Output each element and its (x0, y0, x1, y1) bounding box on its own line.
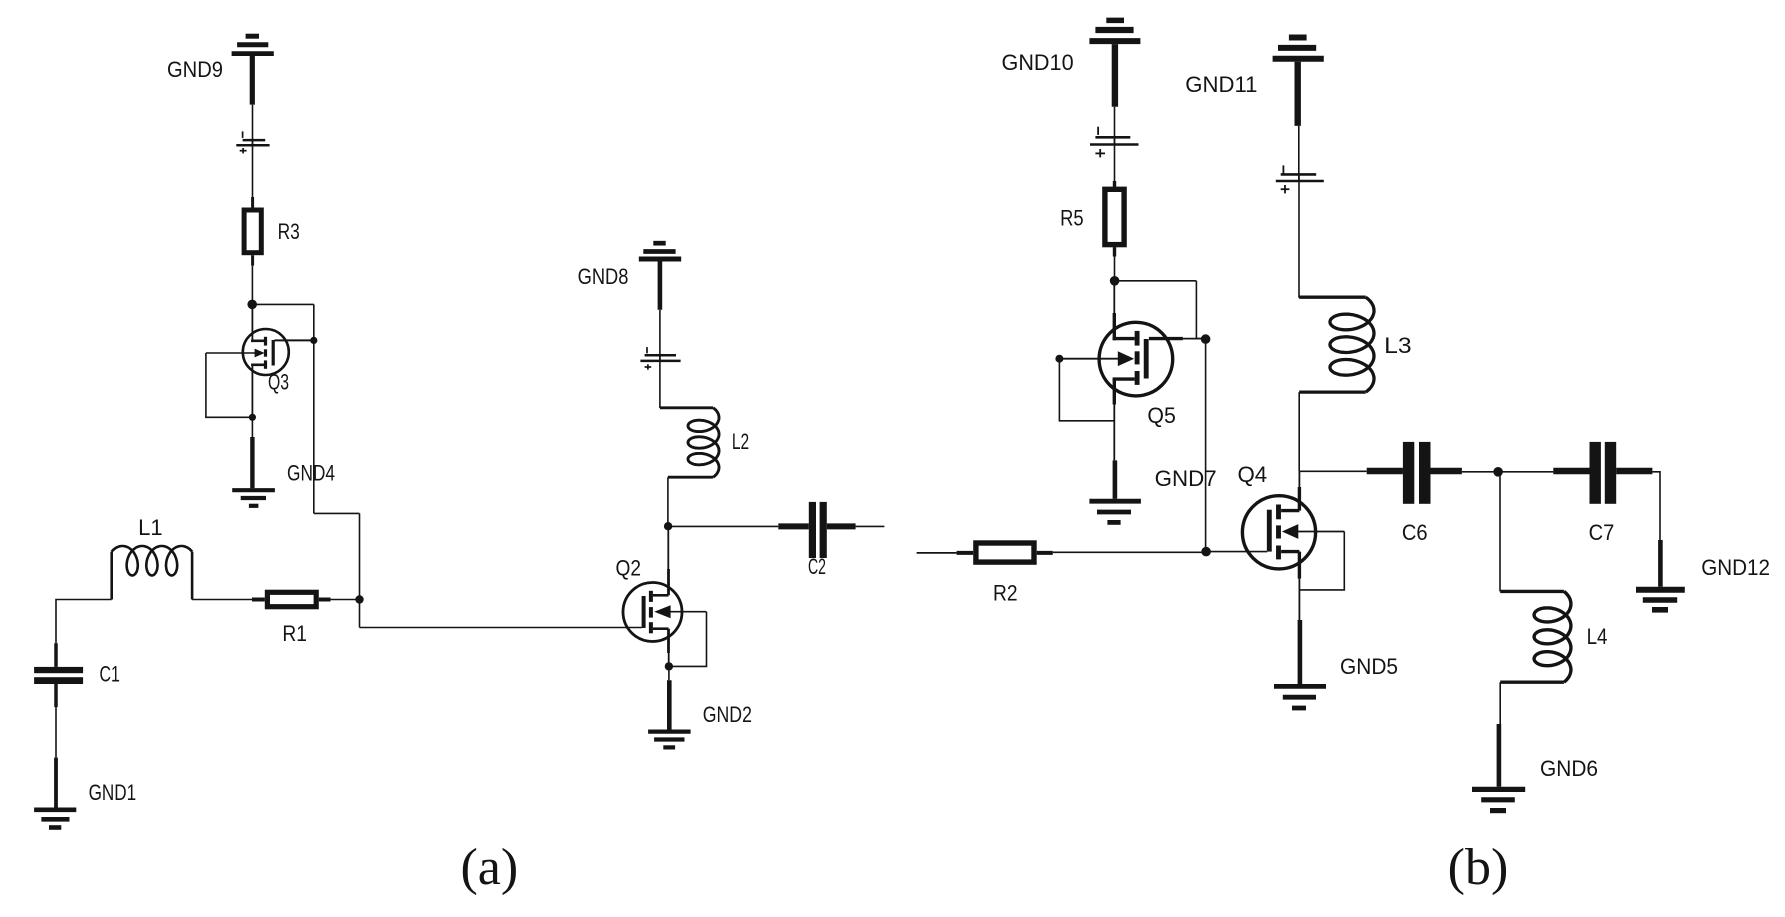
ground GND9 (inverted) (167, 36, 274, 104)
wire Q4 source lead (1298, 552, 1302, 684)
ground GND5 (1274, 654, 1398, 708)
node (R1 right / bias line) (355, 595, 363, 603)
svg-text:R5: R5 (1060, 205, 1084, 230)
node (R5 / Q5 drain / gate tie) (1110, 276, 1120, 286)
wire GND9 to battery V3 (252, 105, 254, 146)
wire C7 to GND12 corner (1652, 472, 1660, 540)
wire jog at y=513 (314, 512, 360, 514)
node (Q2 source / bulk) (665, 662, 673, 670)
wire node to Q4 gate (1206, 551, 1267, 553)
resistor R1 (252, 592, 331, 646)
svg-text:GND2: GND2 (703, 702, 752, 727)
node (Q5 gate tie) (1201, 334, 1211, 344)
svg-text:GND4: GND4 (287, 461, 335, 486)
svg-text:L1: L1 (138, 515, 163, 540)
resistor R3 (244, 197, 300, 266)
inductor L3 (1299, 297, 1412, 392)
battery V2 (640, 347, 680, 370)
capacitor C7 (1553, 442, 1652, 545)
wire corner down (1195, 281, 1197, 339)
wire battery V5 to L3 (1298, 174, 1300, 297)
svg-text:GND8: GND8 (578, 264, 629, 289)
svg-text:GND11: GND11 (1185, 72, 1257, 97)
node (C6 / C7 / L4) (1493, 467, 1503, 477)
svg-text:GND10: GND10 (1002, 50, 1074, 75)
wire vertical x=359.5 through R1 node (359, 513, 361, 627)
svg-text:Q3: Q3 (268, 370, 289, 395)
wire L4 to GND6 (1499, 682, 1500, 787)
wire junction down to Q4 gate node (1205, 339, 1207, 551)
svg-text:C1: C1 (100, 662, 120, 687)
node (Q3 gate tie on vertical wire) (310, 337, 317, 344)
wire node to C7 (1498, 471, 1553, 473)
capacitor C1 (34, 643, 120, 707)
wire battery V3 to R3 (252, 140, 254, 197)
node (Q5 bulk corner) (1055, 355, 1063, 363)
svg-text:Q5: Q5 (1147, 403, 1175, 428)
ground GND1 (34, 780, 136, 828)
wire drain node to C6 (1299, 470, 1367, 472)
svg-text:R3: R3 (278, 219, 300, 244)
svg-text:GND7: GND7 (1155, 466, 1217, 491)
inductor L2 (660, 408, 749, 477)
battery V5 (1276, 165, 1324, 193)
ground GND8 (inverted) (578, 243, 682, 310)
ground GND10 (inverted) (1002, 20, 1141, 106)
ground GND6 (1472, 756, 1598, 811)
transistor Q4 (1238, 462, 1345, 569)
wire GND8 to battery V2 (659, 310, 661, 361)
transistor Q3 (diode-connected) (206, 304, 314, 417)
svg-text:L3: L3 (1384, 333, 1412, 358)
wire battery V4 to R5 (1114, 137, 1116, 181)
svg-text:L2: L2 (732, 429, 749, 454)
wire corner to junction (1196, 338, 1205, 340)
svg-text:R1: R1 (282, 621, 307, 646)
svg-text:GND6: GND6 (1540, 756, 1598, 781)
wire battery V2 to L2 (659, 355, 661, 408)
node (R2 / Q5 tie / Q4 gate) (1201, 547, 1211, 557)
wire GND10 to battery V4 (1114, 107, 1116, 145)
wire vertical x=313.8 down to jog (313, 304, 315, 513)
node (L2 / C2 / Q2 drain) (664, 522, 672, 530)
wire Q3 bulk loop (206, 353, 253, 417)
wire Q3 source to GND4 (251, 417, 253, 488)
wire Q4 bulk loop (1299, 532, 1344, 590)
wire Q5 bulk loop (1059, 359, 1114, 421)
wire R3 to node (251, 266, 253, 305)
transistor Q2 (616, 555, 707, 641)
wire Q2 drain lead (667, 526, 669, 595)
wire Q2 source to GND2 (668, 666, 670, 729)
wire L1 right to R1 (192, 599, 252, 601)
wire node to C2 (668, 525, 778, 527)
wire node down to L4 (1499, 472, 1501, 592)
wire to Q2 gate (360, 627, 642, 629)
svg-text:GND5: GND5 (1340, 654, 1398, 679)
wire L2 to output node (667, 477, 669, 526)
battery V4 (1090, 127, 1139, 158)
svg-text:C6: C6 (1402, 520, 1428, 545)
inductor L1 (112, 515, 192, 600)
wire R5 to node (1114, 257, 1116, 281)
wire Q5 source lead (1113, 379, 1117, 499)
svg-text:Q2: Q2 (616, 555, 642, 580)
wire GND11 to battery V5 (1298, 126, 1300, 181)
battery V3 (236, 131, 269, 153)
svg-text:Q4: Q4 (1238, 462, 1268, 487)
capacitor C2 (778, 502, 855, 579)
wire R2 to Q4 gate node (1053, 551, 1206, 553)
svg-text:(b): (b) (1448, 839, 1509, 896)
inductor L4 (1500, 591, 1607, 682)
wire L3 to Q4 drain / C6 (1298, 392, 1300, 471)
wire Q4 drain lead (1298, 471, 1300, 510)
resistor R5 (1060, 181, 1124, 257)
wire C2 output port (856, 525, 885, 527)
ground GND12 (1636, 555, 1770, 610)
capacitor C6 (1367, 442, 1462, 545)
wire Q2 source lead (667, 629, 670, 667)
svg-text:L4: L4 (1587, 624, 1608, 649)
wire node to gate-tie corner (1115, 280, 1197, 282)
svg-text:GND9: GND9 (167, 57, 223, 82)
wire input to R2 (917, 552, 957, 554)
svg-text:C2: C2 (808, 554, 826, 579)
ground GND11 (inverted) (1185, 38, 1324, 126)
svg-text:GND12: GND12 (1701, 555, 1770, 580)
wire C1 to GND1 (55, 707, 57, 807)
svg-text:GND1: GND1 (89, 780, 137, 805)
ground GND4 (232, 461, 335, 506)
transistor Q5 (diode-connected) (1059, 281, 1205, 428)
resistor R2 (957, 543, 1053, 606)
ground GND7 (1089, 466, 1216, 522)
wire GND12 stem (1658, 540, 1663, 587)
wire node to drain-gate vertical (252, 303, 314, 305)
node (Q3 source / bulk tie) (249, 414, 256, 421)
wire R1 to node (331, 599, 360, 601)
svg-text:(a): (a) (460, 839, 518, 896)
svg-text:R2: R2 (993, 581, 1018, 606)
wire C6 to node (1462, 471, 1498, 473)
svg-text:C7: C7 (1589, 520, 1615, 545)
ground GND2 (648, 702, 752, 747)
node (R3 / Q3 drain / gate tie) (247, 300, 257, 310)
wire Q2 bulk loop (669, 612, 707, 667)
wire L1 left to C1 corner (56, 600, 112, 644)
